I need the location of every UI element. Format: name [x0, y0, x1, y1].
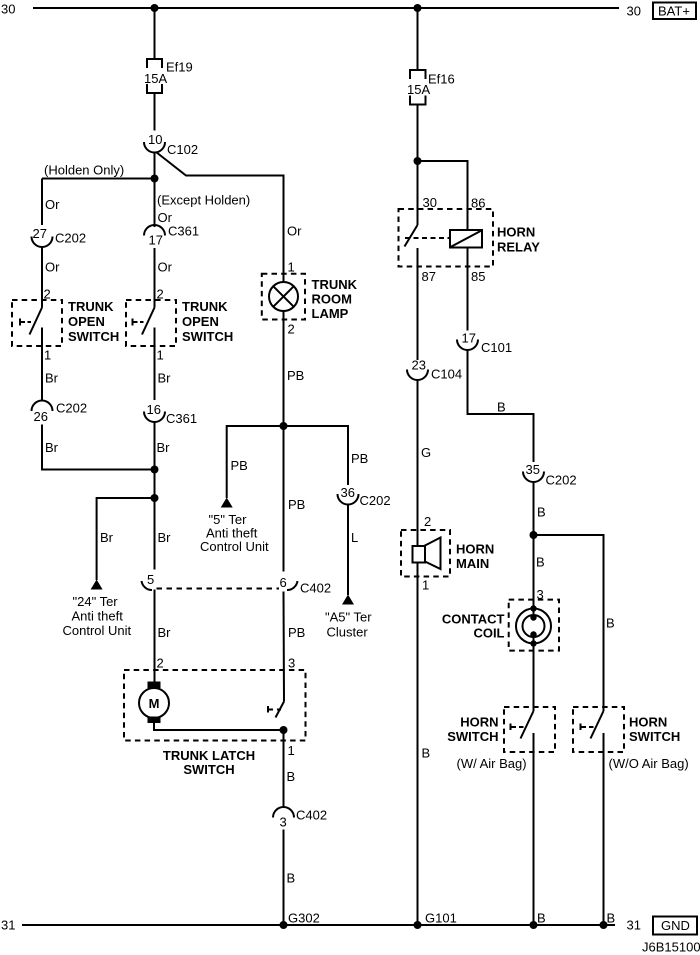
- svg-text:HORN: HORN: [629, 715, 667, 730]
- label "5" Ter Anti theft Control Unit: [200, 512, 269, 554]
- svg-text:2: 2: [157, 656, 164, 671]
- connector C102 pin 10: [144, 132, 198, 157]
- wire trunk open switch 1 to C202 pin 26: [41, 328, 43, 401]
- svg-text:C361: C361: [166, 411, 197, 426]
- wire C102 down to Holden junction: [154, 153, 156, 228]
- connector C402 pin 5 arc: [142, 581, 153, 590]
- node G302: [280, 911, 320, 930]
- wire branch to 24 Ter: [97, 498, 155, 580]
- svg-text:Br: Br: [157, 440, 171, 455]
- svg-text:B: B: [607, 911, 616, 926]
- trunk latch switch box: [124, 670, 306, 741]
- svg-text:Or: Or: [287, 224, 302, 239]
- wire bus30 to fuse Ef19: [154, 8, 156, 59]
- svg-text:Br: Br: [158, 625, 172, 640]
- connector C202 pin 35: [523, 462, 577, 488]
- svg-text:COIL: COIL: [473, 626, 504, 641]
- wire PB junction to C402 pin 6: [283, 426, 285, 572]
- label "24" Ter Anti theft Control Unit: [63, 594, 132, 638]
- fuse Ef16 15A: [407, 70, 455, 105]
- svg-text:Cluster: Cluster: [327, 625, 369, 640]
- svg-text:G101: G101: [425, 911, 457, 926]
- junction relay feed: [414, 157, 422, 165]
- svg-text:MAIN: MAIN: [456, 556, 489, 571]
- svg-text:31: 31: [627, 918, 641, 933]
- svg-text:C202: C202: [546, 473, 577, 488]
- svg-text:CONTACT: CONTACT: [442, 611, 505, 626]
- svg-text:SWITCH: SWITCH: [629, 729, 680, 744]
- svg-text:Br: Br: [100, 530, 114, 545]
- svg-text:1: 1: [288, 743, 295, 758]
- svg-text:Or: Or: [45, 197, 60, 212]
- junction horn switch 2 ground: [600, 921, 608, 929]
- svg-text:30: 30: [627, 4, 641, 19]
- wire C202 pin 26 down and right to junction: [42, 425, 155, 470]
- connector C402 inline boundary (dashed): [157, 588, 280, 590]
- svg-text:L: L: [351, 530, 358, 545]
- svg-text:B: B: [536, 555, 545, 570]
- svg-text:J6B15100: J6B15100: [642, 940, 700, 955]
- svg-text:G: G: [421, 445, 431, 460]
- svg-text:SWITCH: SWITCH: [182, 329, 233, 344]
- junction horn switch branch: [530, 531, 538, 539]
- svg-text:15A: 15A: [407, 82, 430, 97]
- svg-text:27: 27: [33, 226, 47, 241]
- svg-text:TRUNK: TRUNK: [182, 299, 228, 314]
- wire horn main to ground G101: [417, 563, 419, 926]
- node GND: [653, 917, 697, 935]
- wire relay pin 87 to C104: [417, 248, 419, 360]
- svg-text:M: M: [149, 696, 160, 711]
- svg-text:C202: C202: [55, 231, 86, 246]
- svg-text:Control Unit: Control Unit: [200, 539, 269, 554]
- junction horn switch 1 ground: [530, 921, 538, 929]
- horn switch 1 (W/ Air Bag): [447, 707, 555, 771]
- svg-text:Control Unit: Control Unit: [63, 623, 132, 638]
- wire C402 pin 5 to trunk latch motor: [154, 590, 156, 682]
- wire branch to cluster A5: [284, 426, 349, 485]
- wire contact coil to horn switch 1: [533, 644, 535, 712]
- svg-text:Or: Or: [45, 260, 60, 275]
- junction Holden branch: [151, 175, 159, 183]
- svg-text:C101: C101: [481, 340, 512, 355]
- svg-text:C102: C102: [167, 142, 198, 157]
- svg-text:Or: Or: [158, 260, 173, 275]
- svg-text:1: 1: [157, 348, 164, 363]
- svg-text:C361: C361: [168, 224, 199, 239]
- wire bus30 to fuse Ef16: [417, 8, 419, 70]
- svg-text:Anti theft: Anti theft: [72, 609, 124, 624]
- svg-text:ROOM: ROOM: [312, 292, 352, 307]
- terminal arrow 24 Ter: [91, 580, 103, 590]
- svg-text:TRUNK: TRUNK: [312, 277, 358, 292]
- svg-text:PB: PB: [288, 497, 305, 512]
- wire junction to relay coil pin 86: [418, 161, 468, 230]
- connector C104 pin 23: [407, 358, 462, 382]
- junction with Holden branch: [151, 466, 159, 474]
- label "A5" Ter Cluster: [325, 610, 372, 640]
- svg-text:PB: PB: [351, 451, 368, 466]
- svg-text:17: 17: [462, 331, 476, 346]
- svg-text:10: 10: [148, 132, 162, 147]
- svg-text:Br: Br: [158, 371, 172, 386]
- junction PB: [280, 422, 288, 430]
- svg-text:C202: C202: [56, 401, 87, 416]
- wire C202 pin 27 to trunk open switch 1: [41, 247, 43, 308]
- svg-text:C104: C104: [431, 367, 462, 382]
- label TRUNK LATCH SWITCH: [163, 748, 255, 777]
- svg-text:5: 5: [147, 572, 154, 587]
- svg-text:B: B: [287, 871, 296, 886]
- wire left column down to C202 pin 27: [41, 179, 43, 226]
- bus 30 (battery rail): [1, 2, 641, 19]
- motor M (trunk latch): [139, 682, 169, 724]
- wire C101 to C202 pin 35: [468, 350, 534, 462]
- horn main: [401, 530, 494, 577]
- svg-text:1: 1: [44, 348, 51, 363]
- horn relay: [399, 209, 541, 267]
- connector C361 pin 16: [144, 402, 197, 426]
- latch switch contact: [268, 702, 284, 718]
- svg-text:HORN: HORN: [456, 542, 494, 557]
- wire fuse Ef16 to horn relay: [417, 105, 419, 226]
- svg-text:Br: Br: [45, 440, 59, 455]
- svg-text:87: 87: [422, 269, 436, 284]
- svg-text:6: 6: [280, 575, 287, 590]
- svg-text:OPEN: OPEN: [182, 314, 219, 329]
- svg-text:2: 2: [288, 322, 295, 337]
- wire branch to horn switch 2: [534, 535, 604, 711]
- wire trunk open switch 2 to C361 pin 16: [154, 328, 156, 401]
- wire lamp to PB junction: [283, 311, 285, 426]
- svg-text:"24" Ter: "24" Ter: [73, 594, 119, 609]
- terminal arrow A5 cluster: [342, 595, 354, 605]
- svg-text:G302: G302: [288, 911, 320, 926]
- svg-text:30: 30: [1, 2, 15, 17]
- svg-text:TRUNK: TRUNK: [68, 299, 114, 314]
- wire C202 pin 36 to cluster arrow: [347, 504, 349, 595]
- junction inside trunk latch switch: [280, 726, 288, 734]
- svg-text:PB: PB: [287, 368, 304, 383]
- svg-text:GND: GND: [661, 918, 690, 933]
- junction on bus 30 at Ef16: [414, 4, 422, 12]
- svg-text:"A5" Ter: "A5" Ter: [325, 610, 372, 625]
- wire C402 pin 3 to ground G302: [283, 830, 285, 926]
- svg-text:SWITCH: SWITCH: [183, 762, 234, 777]
- connector C202 pin 27: [32, 226, 87, 247]
- svg-text:(W/O Air Bag): (W/O Air Bag): [609, 756, 689, 771]
- contact coil: [442, 600, 559, 651]
- svg-text:C402: C402: [300, 581, 331, 596]
- svg-text:36: 36: [341, 485, 355, 500]
- svg-text:23: 23: [412, 358, 426, 373]
- fuse Ef19 15A: [144, 59, 193, 93]
- wire C104 to horn main: [417, 380, 419, 546]
- node BAT+: [653, 3, 696, 20]
- wire latch junction to C402 pin 3: [283, 730, 285, 807]
- svg-text:B: B: [287, 769, 296, 784]
- svg-text:30: 30: [423, 195, 437, 210]
- junction with 24 Ter branch: [151, 494, 159, 502]
- svg-text:HORN: HORN: [497, 225, 535, 240]
- bus 31 (ground rail): [1, 918, 641, 933]
- svg-text:B: B: [537, 505, 546, 520]
- svg-text:SWITCH: SWITCH: [447, 729, 498, 744]
- svg-text:C402: C402: [296, 808, 327, 823]
- trunk open switch 2 (Except Holden): [126, 299, 233, 346]
- trunk room lamp: [262, 274, 358, 321]
- svg-text:C202: C202: [360, 493, 391, 508]
- svg-text:RELAY: RELAY: [497, 240, 540, 255]
- svg-text:35: 35: [526, 462, 540, 477]
- svg-text:TRUNK LATCH: TRUNK LATCH: [163, 748, 255, 763]
- svg-text:1: 1: [422, 578, 429, 593]
- connector C202 pin 36: [338, 485, 391, 508]
- svg-text:Ef16: Ef16: [428, 72, 455, 87]
- wire C102 angled branch to trunk room lamp: [156, 152, 284, 282]
- wire motor to latch junction: [154, 723, 284, 730]
- svg-text:B: B: [497, 400, 506, 415]
- svg-text:HORN: HORN: [460, 715, 498, 730]
- svg-text:B: B: [537, 911, 546, 926]
- connector C101 pin 17: [457, 331, 512, 356]
- svg-text:LAMP: LAMP: [312, 306, 349, 321]
- svg-text:26: 26: [34, 409, 48, 424]
- wire horn switch 2 to bus 31: [603, 733, 605, 925]
- svg-text:Br: Br: [158, 530, 172, 545]
- svg-text:PB: PB: [231, 458, 248, 473]
- svg-text:2: 2: [424, 514, 431, 529]
- svg-text:85: 85: [471, 269, 485, 284]
- connector C202 pin 26: [32, 401, 88, 425]
- svg-text:SWITCH: SWITCH: [68, 329, 119, 344]
- wire branch to 5 Ter: [227, 426, 284, 498]
- svg-text:PB: PB: [288, 625, 305, 640]
- svg-text:Ef19: Ef19: [166, 60, 193, 75]
- connector C402 pin 3: [273, 807, 327, 829]
- wire relay pin 85 to C101: [467, 248, 469, 331]
- svg-text:31: 31: [1, 918, 15, 933]
- node G101: [414, 911, 457, 930]
- svg-text:Br: Br: [45, 371, 59, 386]
- svg-text:(W/ Air Bag): (W/ Air Bag): [457, 756, 527, 771]
- svg-text:16: 16: [147, 402, 161, 417]
- wire junction to left column: [42, 178, 155, 180]
- wire C402 pin 6 to latch switch pin 3: [283, 592, 286, 702]
- svg-text:B: B: [606, 616, 615, 631]
- svg-text:(Holden Only): (Holden Only): [44, 163, 124, 178]
- trunk open switch 1 (Holden): [12, 299, 119, 346]
- svg-text:BAT+: BAT+: [658, 4, 690, 19]
- svg-text:B: B: [422, 746, 431, 761]
- wire C202 pin 35 to contact coil: [533, 482, 535, 609]
- wire fuse Ef19 to connector C102: [154, 93, 156, 131]
- wire C361 pin 17 to trunk open switch 2: [154, 248, 156, 308]
- junction on bus 30 at Ef19: [151, 4, 159, 12]
- svg-text:1: 1: [288, 260, 295, 275]
- svg-text:OPEN: OPEN: [68, 314, 105, 329]
- terminal arrow 5 Ter: [221, 498, 233, 508]
- wire horn switch 1 to bus 31: [533, 733, 535, 925]
- connector C361 pin 17: [144, 224, 199, 248]
- wire C361 pin 16 down through junctions: [154, 422, 156, 570]
- svg-text:3: 3: [288, 656, 295, 671]
- svg-text:(Except Holden): (Except Holden): [157, 193, 250, 208]
- connector C402 pin 6 arc: [287, 581, 298, 590]
- horn switch 2 (W/O Air Bag): [573, 707, 689, 771]
- svg-text:15A: 15A: [144, 71, 167, 86]
- svg-text:17: 17: [149, 233, 163, 248]
- svg-text:3: 3: [280, 815, 287, 830]
